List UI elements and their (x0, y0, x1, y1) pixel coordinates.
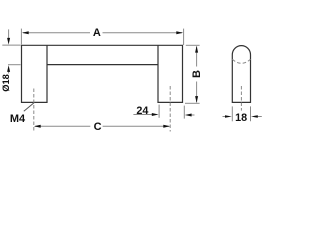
dimension 18 (side view) (223, 106, 262, 121)
svg-text:Ø18: Ø18 (1, 74, 11, 92)
side view centerline (240, 86, 242, 111)
svg-text:M4: M4 (10, 113, 26, 125)
left leg centerline (33, 89, 35, 131)
right leg centerline (169, 86, 171, 132)
dimension B (185, 45, 200, 103)
svg-text:A: A (93, 27, 101, 39)
handle front view outline (22, 45, 183, 102)
side view dashed junction arc (232, 59, 250, 63)
dimension A (21, 29, 183, 45)
handle side view outline (232, 46, 250, 103)
dimension 24 (133, 105, 194, 119)
label M4 with leader (24, 103, 34, 112)
svg-text:18: 18 (235, 112, 247, 124)
dimension &#216;18 (2, 29, 20, 73)
svg-text:B: B (191, 70, 203, 78)
svg-text:24: 24 (136, 105, 148, 117)
svg-text:C: C (94, 121, 102, 133)
dimension C (35, 125, 169, 127)
